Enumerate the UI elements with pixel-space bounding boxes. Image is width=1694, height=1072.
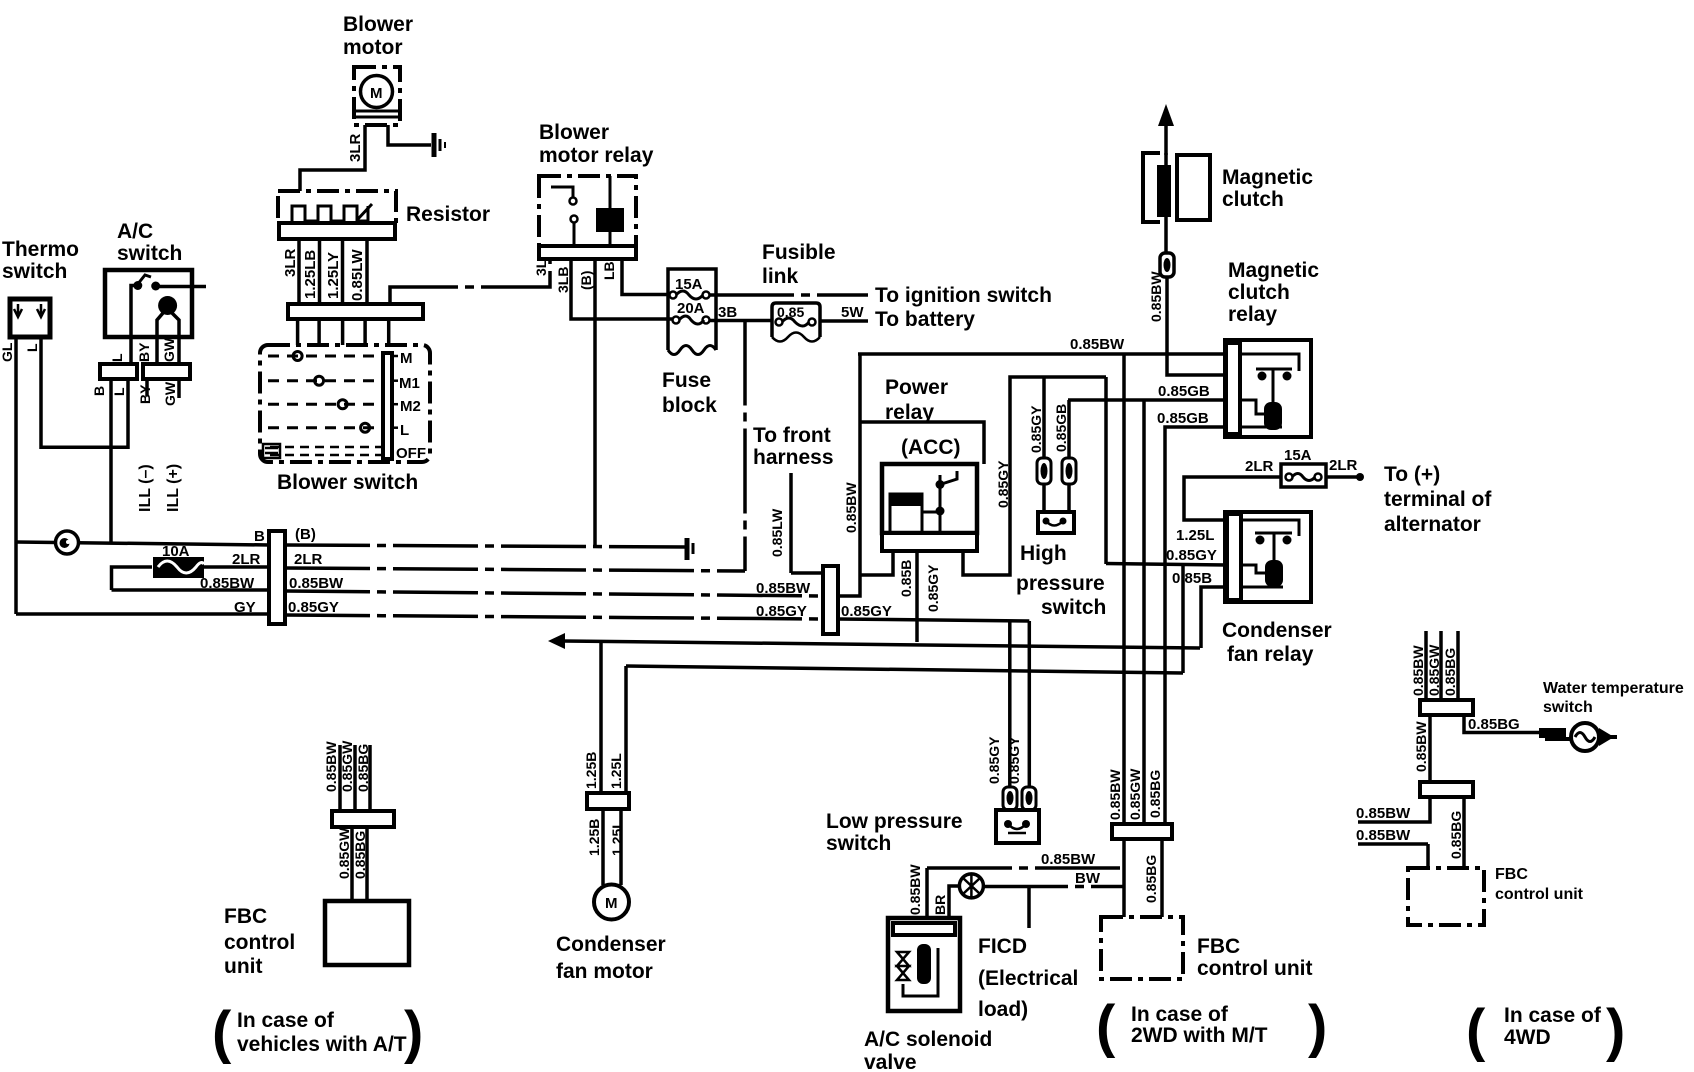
svg-text:2LR: 2LR bbox=[1329, 457, 1358, 474]
connector bar C2 bbox=[823, 566, 838, 634]
svg-text:3LR: 3LR bbox=[282, 248, 299, 277]
svg-text:5W: 5W bbox=[841, 304, 864, 321]
svg-text:(ACC): (ACC) bbox=[901, 436, 960, 459]
label Blower motor relay bbox=[539, 121, 654, 167]
svg-text:BR: BR bbox=[932, 895, 948, 915]
power relay K2 bbox=[882, 464, 977, 533]
svg-text:control: control bbox=[224, 931, 295, 954]
svg-text:15A: 15A bbox=[1284, 447, 1312, 464]
svg-text:motor relay: motor relay bbox=[539, 144, 654, 167]
wire 1.25LB resistor lead bbox=[318, 239, 322, 304]
wire ILL stub 2 bbox=[177, 379, 181, 398]
svg-text:0.85BW: 0.85BW bbox=[1148, 271, 1164, 322]
svg-text:): ) bbox=[404, 1000, 423, 1065]
wire 0.85GW lead bbox=[353, 745, 357, 811]
label Power relay bbox=[885, 376, 948, 424]
svg-text:0.85BG: 0.85BG bbox=[1448, 811, 1464, 859]
label A/C solenoid valve bbox=[864, 1028, 992, 1072]
wire 0.85BW bus right dash-dot bbox=[285, 591, 823, 596]
svg-text:Fusible: Fusible bbox=[762, 241, 836, 264]
connector bar water temp bottom bbox=[1420, 782, 1473, 797]
svg-text:0.85GY: 0.85GY bbox=[1028, 405, 1044, 453]
wire 0.85GW below bar bbox=[350, 827, 354, 901]
svg-text:0.85BW: 0.85BW bbox=[1410, 645, 1426, 696]
wire 0.85GB drop to high pressure switch bbox=[1067, 400, 1071, 458]
connector bar AC switch right bbox=[143, 364, 190, 379]
svg-text:0.85GY: 0.85GY bbox=[986, 736, 1002, 784]
wire GL thermo down bbox=[14, 337, 18, 614]
svg-text:L: L bbox=[111, 387, 127, 396]
svg-text:M1: M1 bbox=[399, 375, 420, 392]
FBC control unit 4WD bbox=[1408, 868, 1484, 925]
svg-text:(: ( bbox=[212, 1000, 232, 1065]
wire FBC 2WD left lead bbox=[1122, 839, 1126, 917]
svg-text:0 85B: 0 85B bbox=[1172, 570, 1212, 587]
svg-text:0.85GW: 0.85GW bbox=[1426, 644, 1442, 696]
svg-text:0.85BG: 0.85BG bbox=[355, 744, 371, 792]
svg-text:1.25B: 1.25B bbox=[586, 819, 602, 856]
wire 0.85BW clutch down bbox=[1167, 277, 1226, 375]
wire 0.85GB relay second line bbox=[1165, 427, 1226, 824]
wire 3B to fusible link bbox=[709, 319, 772, 323]
svg-text:3LR: 3LR bbox=[347, 133, 364, 162]
svg-text:0.85BG: 0.85BG bbox=[1468, 716, 1520, 733]
wire 0.85BG lead bbox=[368, 745, 372, 811]
wire 0.85BG lead bbox=[1456, 631, 1460, 700]
svg-text:BY: BY bbox=[137, 384, 153, 404]
caption In case of 4WD bbox=[1466, 998, 1625, 1063]
wire 3L resistor to blower motor relay bbox=[390, 259, 550, 304]
magnetic clutch MC bbox=[1143, 153, 1210, 253]
wire BW line bbox=[983, 885, 1124, 889]
svg-text:In case of: In case of bbox=[1504, 1004, 1602, 1027]
svg-text:M: M bbox=[605, 895, 618, 912]
svg-text:L: L bbox=[400, 422, 409, 439]
connector bar blower motor relay bbox=[539, 246, 636, 259]
svg-text:Fuse: Fuse bbox=[662, 369, 711, 392]
wire FICD dash stub bbox=[1027, 887, 1031, 928]
ground bbox=[434, 133, 445, 157]
svg-text:0.85BG: 0.85BG bbox=[1143, 855, 1159, 903]
svg-text:clutch: clutch bbox=[1222, 188, 1284, 211]
connector bar FBC A/T bbox=[332, 811, 394, 827]
terminal end of B bbox=[687, 538, 693, 560]
svg-text:valve: valve bbox=[864, 1051, 917, 1072]
svg-text:0.85BG: 0.85BG bbox=[352, 831, 368, 879]
svg-text:ILL (+): ILL (+) bbox=[165, 464, 182, 512]
svg-text:2LR: 2LR bbox=[294, 551, 323, 568]
svg-text:In case of: In case of bbox=[237, 1009, 335, 1032]
connector grommet on B line bbox=[56, 531, 79, 554]
connector bullet clutch bbox=[1160, 253, 1174, 277]
svg-text:3LB: 3LB bbox=[555, 267, 571, 293]
svg-text:1.25L: 1.25L bbox=[609, 820, 625, 856]
connector bar power relay bbox=[882, 533, 977, 551]
wire FICD to solenoid bbox=[949, 886, 959, 918]
caption In case of vehicles with A/T bbox=[212, 1000, 423, 1065]
connector bullet high pressure 1 bbox=[1037, 458, 1051, 484]
svg-text:0.85LW: 0.85LW bbox=[769, 508, 785, 557]
svg-text:To ignition switch: To ignition switch bbox=[875, 284, 1052, 307]
svg-text:M: M bbox=[400, 350, 413, 367]
svg-text:0.85BG: 0.85BG bbox=[1442, 648, 1458, 696]
svg-text:0.85BW: 0.85BW bbox=[1356, 805, 1411, 822]
label Condenser fan relay bbox=[1222, 619, 1332, 666]
svg-text:0.85GB: 0.85GB bbox=[1157, 410, 1209, 427]
svg-text:vehicles with A/T: vehicles with A/T bbox=[237, 1033, 407, 1056]
label Low pressure switch bbox=[826, 810, 963, 855]
label Fusible link bbox=[762, 241, 836, 288]
svg-text:0.85BW: 0.85BW bbox=[907, 864, 923, 915]
svg-text:): ) bbox=[1308, 994, 1327, 1059]
svg-text:FICD: FICD bbox=[978, 935, 1027, 958]
svg-text:0.85BG: 0.85BG bbox=[1147, 770, 1163, 818]
svg-text:Thermo: Thermo bbox=[2, 238, 79, 261]
svg-text:0.85LW: 0.85LW bbox=[349, 248, 366, 301]
label To (+) terminal of alternator bbox=[1384, 463, 1492, 536]
low pressure switch S6 bbox=[996, 810, 1039, 843]
svg-text:0.85GY: 0.85GY bbox=[1006, 736, 1022, 784]
svg-text:relay: relay bbox=[1228, 303, 1277, 326]
condenser fan motor M2 bbox=[594, 885, 629, 920]
wire blower motor to ground bbox=[388, 125, 431, 145]
svg-text:0.85BW: 0.85BW bbox=[756, 580, 811, 597]
wire GY to connector bbox=[16, 612, 270, 616]
fuse 15A alternator bbox=[1281, 464, 1326, 487]
wire B bus left bbox=[16, 542, 270, 545]
FICD valve symbol bbox=[959, 874, 983, 898]
svg-text:1.25LB: 1.25LB bbox=[302, 250, 319, 299]
wire power relay acc feed bbox=[860, 422, 984, 464]
svg-text:B: B bbox=[254, 528, 265, 545]
wire blower switch pin M2 bbox=[341, 319, 345, 401]
svg-text:ILL (–): ILL (–) bbox=[137, 464, 154, 512]
svg-text:pressure: pressure bbox=[1016, 572, 1105, 595]
wire 0.85GY to condenser fan relay bbox=[1106, 564, 1227, 566]
label A/C switch bbox=[117, 220, 182, 265]
wire fusible link to battery bbox=[820, 319, 868, 323]
svg-text:3L: 3L bbox=[533, 259, 549, 276]
wire 0.85GY bus right dash-dot bbox=[285, 615, 823, 619]
svg-text:M: M bbox=[370, 85, 383, 102]
A/C switch S3 bbox=[105, 270, 206, 364]
wire 0.85BW bar to power relay riser bbox=[838, 354, 860, 596]
wire 2LR bus right dash-dot bbox=[285, 568, 745, 571]
svg-text:0.85GW: 0.85GW bbox=[336, 827, 352, 879]
svg-text:(: ( bbox=[1466, 998, 1486, 1063]
svg-text:A/C solenoid: A/C solenoid bbox=[864, 1028, 992, 1051]
svg-text:terminal of: terminal of bbox=[1384, 488, 1492, 511]
A/C solenoid valve L1 bbox=[888, 918, 960, 1011]
label Magnetic clutch bbox=[1222, 166, 1313, 211]
wire 0.85GY drop to low pressure switch 1 bbox=[1008, 620, 1012, 787]
svg-text:alternator: alternator bbox=[1384, 513, 1481, 536]
wire FBC 2WD right lead bbox=[1160, 839, 1164, 917]
wire 0.85BW between bars bbox=[1428, 715, 1432, 783]
svg-text:0.85GB: 0.85GB bbox=[1053, 404, 1069, 452]
wire 0.85GY branch to line2 bbox=[1181, 565, 1185, 673]
svg-text:FBC: FBC bbox=[224, 905, 267, 928]
svg-text:Blower switch: Blower switch bbox=[277, 471, 418, 494]
svg-text:harness: harness bbox=[753, 446, 834, 469]
svg-text:20A: 20A bbox=[677, 300, 705, 317]
resistor R1 bbox=[278, 191, 396, 223]
wire 1.25LY resistor lead bbox=[341, 239, 345, 304]
label To front harness bbox=[753, 424, 834, 469]
water temperature switch S7 bbox=[1539, 723, 1617, 751]
svg-text:0.85GY: 0.85GY bbox=[995, 460, 1011, 508]
magnetic clutch relay K3 bbox=[1225, 340, 1311, 437]
wire AC switch L pin to thermo switch bbox=[41, 337, 128, 447]
svg-text:load): load) bbox=[978, 998, 1028, 1021]
blower motor relay K1 bbox=[539, 176, 636, 246]
svg-text:(: ( bbox=[1096, 994, 1116, 1059]
svg-text:switch: switch bbox=[826, 832, 891, 855]
svg-text:link: link bbox=[762, 265, 798, 288]
wire 0.85BW vertical V2 bbox=[1122, 354, 1126, 824]
svg-text:0.85GB: 0.85GB bbox=[1158, 383, 1210, 400]
svg-text:In case of: In case of bbox=[1131, 1003, 1229, 1026]
svg-text:switch: switch bbox=[1543, 699, 1593, 716]
svg-text:control unit: control unit bbox=[1197, 957, 1312, 980]
svg-text:FBC: FBC bbox=[1197, 935, 1240, 958]
fusible link FL1 bbox=[772, 303, 820, 342]
wire condenser fan line 1 bbox=[548, 633, 1200, 649]
svg-text:0.85B: 0.85B bbox=[898, 560, 914, 597]
connector bullet high pressure 2 bbox=[1062, 458, 1076, 484]
svg-text:): ) bbox=[1606, 998, 1625, 1063]
svg-text:0.85GY: 0.85GY bbox=[756, 603, 807, 620]
label Fuse block bbox=[662, 369, 717, 417]
svg-text:control unit: control unit bbox=[1495, 886, 1584, 903]
svg-text:0.85BW: 0.85BW bbox=[843, 482, 859, 533]
svg-text:0.85BW: 0.85BW bbox=[1107, 769, 1123, 820]
label Condenser fan motor bbox=[556, 933, 666, 983]
svg-text:2LR: 2LR bbox=[232, 551, 261, 568]
svg-text:0.85BW: 0.85BW bbox=[1413, 721, 1429, 772]
svg-text:B: B bbox=[91, 386, 107, 396]
svg-text:LB: LB bbox=[601, 261, 617, 280]
wire to front harness bbox=[789, 473, 793, 573]
svg-text:fan motor: fan motor bbox=[556, 960, 653, 983]
wire 0.85GW lead bbox=[1439, 631, 1443, 700]
blower switch S2 bbox=[260, 345, 430, 462]
svg-text:Magnetic: Magnetic bbox=[1228, 259, 1319, 282]
svg-text:block: block bbox=[662, 394, 717, 417]
svg-text:Blower: Blower bbox=[343, 13, 413, 36]
svg-text:Power: Power bbox=[885, 376, 948, 399]
label High pressure switch bbox=[1016, 542, 1106, 619]
FBC control unit A/T bbox=[325, 901, 409, 965]
label Thermo switch bbox=[2, 238, 79, 283]
fuse block bbox=[668, 269, 716, 355]
svg-text:Condenser: Condenser bbox=[1222, 619, 1332, 642]
svg-text:0.85BW: 0.85BW bbox=[1041, 851, 1096, 868]
wire 0.85BW lead bbox=[1424, 631, 1428, 700]
fuse 10A bbox=[153, 543, 204, 578]
wire 0.85GY drop to low pressure switch 2 bbox=[1028, 621, 1032, 787]
connector bar AC switch left bbox=[100, 364, 137, 379]
wire 0.85GY power relay contact out bbox=[963, 377, 1106, 575]
thermo switch S4 bbox=[10, 299, 50, 337]
wire 0.85BW to connector bbox=[112, 588, 271, 592]
wire 0.85B power relay pin down bbox=[915, 551, 919, 642]
svg-text:OFF: OFF bbox=[396, 445, 426, 462]
arrow to compressor bbox=[1158, 104, 1174, 155]
wire 2LR to connector bbox=[204, 565, 270, 569]
wire 0.85GY drop to high pressure switch bbox=[1042, 377, 1046, 458]
svg-text:switch: switch bbox=[117, 242, 182, 265]
svg-text:0.85BW: 0.85BW bbox=[323, 741, 339, 792]
wire ILL stub 1 bbox=[145, 379, 149, 396]
high pressure switch S5 bbox=[1038, 512, 1074, 533]
svg-text:To battery: To battery bbox=[875, 308, 975, 331]
wire B bus right dash-dot bbox=[285, 545, 687, 547]
wire blower switch pin M bbox=[296, 319, 300, 352]
svg-text:1.25B: 1.25B bbox=[583, 752, 599, 789]
condenser fan relay K4 bbox=[1225, 512, 1311, 602]
wire 0.85LW resistor lead bbox=[365, 239, 369, 304]
wire 1.25L fan motor drop bbox=[624, 666, 628, 793]
svg-text:Magnetic: Magnetic bbox=[1222, 166, 1313, 189]
svg-text:Water temperature: Water temperature bbox=[1543, 680, 1684, 697]
svg-text:GL: GL bbox=[0, 342, 15, 362]
svg-text:0.85BW: 0.85BW bbox=[1070, 336, 1125, 353]
svg-text:M2: M2 bbox=[400, 398, 421, 415]
svg-text:To front: To front bbox=[753, 424, 831, 447]
label FICD (Electrical load) bbox=[978, 935, 1078, 1021]
svg-text:FBC: FBC bbox=[1495, 866, 1528, 883]
wire 1.25B fan motor drop bbox=[599, 641, 603, 793]
svg-text:0.85BW: 0.85BW bbox=[1356, 827, 1411, 844]
svg-text:switch: switch bbox=[1041, 596, 1106, 619]
wire 0.85GY bar to low pressure drop bbox=[838, 619, 1029, 621]
wire LB pin to 15A fuse bbox=[622, 259, 668, 295]
fuse 15A bbox=[670, 291, 710, 299]
connector bar C1 bbox=[269, 531, 285, 624]
svg-text:L: L bbox=[109, 353, 125, 362]
wire 0.85B branch to line1 bbox=[1201, 587, 1227, 648]
svg-text:(B): (B) bbox=[295, 526, 316, 543]
svg-text:2LR: 2LR bbox=[1245, 458, 1274, 475]
wire 0.85GY vertical V1 bbox=[1104, 377, 1108, 564]
connector bullet low pressure 2 bbox=[1022, 787, 1036, 810]
wire to ignition switch bbox=[709, 293, 868, 297]
svg-text:1.25L: 1.25L bbox=[608, 753, 624, 789]
wire blower switch pin M1 bbox=[317, 319, 321, 377]
connector bar above blower switch bbox=[288, 304, 423, 319]
svg-text:To (+): To (+) bbox=[1384, 463, 1440, 486]
label FBC control unit bbox=[1495, 866, 1584, 903]
wire 0.85BG below bar bbox=[365, 827, 369, 901]
FBC control unit 2WD bbox=[1101, 917, 1183, 979]
wire 0.85BW stub 2 bbox=[1358, 844, 1428, 868]
wire power relay coil pin to 0.85BW bbox=[860, 551, 893, 575]
label Water temperature switch bbox=[1543, 680, 1684, 716]
wire 2LR fuse to condenser fan relay bbox=[1184, 477, 1281, 520]
wire 0.85GW vertical V3 bbox=[1142, 400, 1146, 824]
wire 0.85GB line bbox=[1068, 398, 1226, 402]
svg-text:0.85GY: 0.85GY bbox=[1166, 547, 1217, 564]
wire condenser fan line 2 bbox=[626, 666, 1183, 673]
svg-text:GW: GW bbox=[161, 337, 177, 362]
svg-text:1.25LY: 1.25LY bbox=[325, 252, 342, 299]
svg-text:0.85GW: 0.85GW bbox=[339, 740, 355, 792]
svg-text:BY: BY bbox=[136, 342, 152, 362]
svg-text:GY: GY bbox=[234, 599, 256, 616]
blower motor M1 bbox=[354, 67, 400, 125]
wire 1.25B below bar bbox=[601, 809, 605, 885]
svg-text:(Electrical: (Electrical bbox=[978, 967, 1078, 990]
svg-text:0.85GW: 0.85GW bbox=[1127, 768, 1143, 820]
connector bar FBC 2WD bbox=[1112, 824, 1172, 839]
svg-text:Condenser: Condenser bbox=[556, 933, 666, 956]
svg-text:clutch: clutch bbox=[1228, 281, 1290, 304]
wire 0.85BW to magnetic clutch relay bbox=[858, 352, 1226, 356]
svg-text:fan relay: fan relay bbox=[1227, 643, 1314, 666]
svg-text:2WD with M/T: 2WD with M/T bbox=[1131, 1024, 1268, 1047]
svg-text:motor: motor bbox=[343, 36, 403, 59]
svg-text:0.85GY: 0.85GY bbox=[925, 564, 941, 612]
svg-text:Resistor: Resistor bbox=[406, 203, 490, 226]
svg-text:4WD: 4WD bbox=[1504, 1026, 1551, 1049]
wire 3LR resistor lead bbox=[297, 239, 301, 304]
wire 0.85BW solenoid drop bbox=[925, 868, 929, 918]
connector bullet low pressure 1 bbox=[1003, 787, 1017, 810]
svg-text:3B: 3B bbox=[718, 304, 737, 321]
svg-text:BW: BW bbox=[1075, 870, 1101, 887]
svg-text:switch: switch bbox=[2, 260, 67, 283]
wire (B) pin down to B bus bbox=[593, 259, 597, 546]
svg-text:L: L bbox=[24, 343, 40, 352]
wire 3LR blower motor to resistor bbox=[300, 125, 365, 192]
wire 0.85BW stub 1 bbox=[1358, 797, 1430, 822]
wire 1.25L below bar bbox=[619, 809, 623, 885]
svg-text:High: High bbox=[1020, 542, 1067, 565]
wire 0.85BW lead bbox=[338, 745, 342, 811]
wire blower switch wiper feed bbox=[387, 319, 391, 353]
svg-text:Blower: Blower bbox=[539, 121, 609, 144]
label FBC control unit bbox=[224, 905, 295, 978]
connector bar under resistor bbox=[279, 223, 395, 239]
wire 0.85BG to FBC 4WD bbox=[1462, 797, 1466, 868]
svg-text:Low pressure: Low pressure bbox=[826, 810, 963, 833]
svg-text:(B): (B) bbox=[578, 271, 594, 290]
label FBC control unit bbox=[1197, 935, 1312, 980]
fuse 20A bbox=[673, 316, 710, 324]
label Blower motor bbox=[343, 13, 413, 59]
svg-text:unit: unit bbox=[224, 955, 262, 978]
svg-text:10A: 10A bbox=[162, 543, 190, 560]
connector bar fan motor bbox=[587, 793, 629, 809]
wire 0.85BG to water temp switch bbox=[1464, 715, 1541, 733]
svg-text:GW: GW bbox=[162, 381, 178, 406]
wire 2LR bracket bbox=[112, 567, 153, 590]
wire 0.85BW FICD line bbox=[927, 866, 1124, 870]
svg-text:0.85BW: 0.85BW bbox=[200, 575, 255, 592]
wire high pressure switch leads bbox=[1044, 484, 1069, 512]
wire 2LR fuse to alternator bbox=[1326, 475, 1360, 479]
label Magnetic clutch relay bbox=[1228, 259, 1319, 326]
wire 3B branch down bbox=[743, 321, 747, 572]
wire AC switch B pin down bbox=[109, 379, 113, 543]
svg-text:1.25L: 1.25L bbox=[1176, 527, 1214, 544]
wire 3LB pin to 20A fuse bbox=[571, 259, 672, 319]
wire blower switch pin L bbox=[363, 319, 367, 424]
svg-text:A/C: A/C bbox=[117, 220, 153, 243]
caption In case of 2WD with M/T bbox=[1096, 994, 1327, 1059]
connector bar water temp top bbox=[1420, 700, 1473, 715]
